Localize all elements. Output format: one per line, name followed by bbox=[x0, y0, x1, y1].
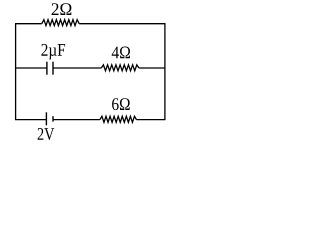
label 6Ω bbox=[112, 98, 130, 110]
resistor 6Ω bbox=[100, 116, 137, 122]
resistor 4Ω bbox=[101, 65, 139, 71]
wire left vertical bbox=[15, 23, 17, 120]
wire middle-left bbox=[15, 67, 47, 69]
label 4Ω bbox=[112, 47, 130, 59]
wire bottom-left bbox=[15, 119, 46, 121]
battery 2V bbox=[46, 112, 53, 125]
wire top-right bbox=[79, 23, 165, 25]
label 2V bbox=[38, 128, 55, 140]
wire middle-center bbox=[53, 67, 101, 69]
label 2Ω bbox=[52, 3, 72, 15]
wire bottom-center bbox=[53, 119, 100, 121]
wire right vertical bbox=[164, 23, 166, 120]
wire top-left bbox=[15, 23, 42, 25]
resistor 2Ω bbox=[42, 20, 79, 26]
label 2µF bbox=[41, 44, 65, 60]
wire middle-right bbox=[139, 67, 166, 69]
capacitor 2µF bbox=[47, 62, 53, 75]
wire bottom-right bbox=[137, 119, 166, 121]
